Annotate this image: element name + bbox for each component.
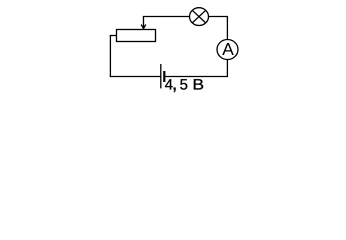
battery long thin plate (160, 64, 162, 88)
wiper arrowhead (141, 25, 146, 29)
battery value label digit 5 (180, 79, 187, 89)
lamp X diagonal 1 (192, 10, 205, 23)
battery short thick plate (163, 71, 165, 82)
lamp X diagonal 2 (192, 10, 205, 23)
wire: rheostat left terminal step (110, 35, 117, 37)
lamp circle (190, 8, 209, 26)
battery value label digit 4 (165, 79, 173, 89)
wire: top horizontal from wiper corner to top-right corner (143, 16, 228, 18)
wire: left vertical (109, 36, 111, 78)
battery value label comma (173, 88, 175, 93)
wire: bottom right segment (164, 76, 228, 78)
resistor (rheostat) body rectangle (117, 30, 156, 42)
ammeter circle (217, 40, 238, 60)
wire: right vertical (226, 16, 228, 77)
wire: wiper vertical stem (143, 17, 145, 29)
wire: bottom left segment (110, 76, 161, 78)
ammeter letter A (222, 43, 234, 55)
battery value label letter V (Cyrillic Ve) (194, 79, 203, 89)
